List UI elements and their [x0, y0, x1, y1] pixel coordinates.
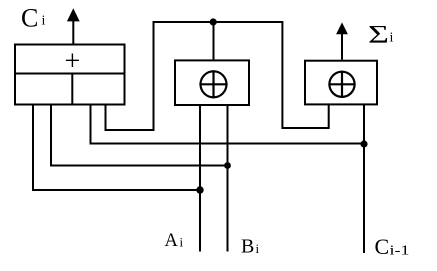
svg-text:i: i [42, 14, 46, 29]
svg-text:Σ: Σ [368, 22, 389, 49]
output arrow Ci wire [72, 19, 74, 44]
wire from carry block pin over top bus to right XOR input [106, 22, 329, 130]
carry block U1 lower vertical divider [71, 74, 73, 105]
right XOR gate U3 cross horizontal [328, 83, 355, 85]
carry block U1 horizontal divider [14, 73, 126, 75]
svg-text:A: A [165, 231, 179, 251]
middle XOR gate U2 cross vertical [212, 70, 214, 98]
right XOR gate U3 box [305, 61, 377, 105]
svg-text:B: B [241, 236, 254, 258]
carry block U1 outer box [15, 45, 125, 105]
output arrow Sigma wire [341, 33, 343, 60]
svg-text:i: i [256, 241, 260, 256]
junction dot on bus 3 at Ai [196, 186, 203, 193]
junction dot on top bus [210, 18, 217, 25]
svg-text:C: C [21, 4, 38, 33]
input wire Ai [199, 106, 201, 252]
svg-text:i-1: i-1 [390, 243, 410, 258]
output arrow Sigma head [336, 22, 348, 34]
svg-text:+: + [65, 46, 81, 77]
wire from carry block pin to bus 1 (carry-in bus) [91, 105, 364, 144]
junction dot on bus 1 at Ci-1 [360, 140, 367, 147]
right XOR gate U3 cross vertical [341, 71, 343, 98]
wire from top bus junction down to middle XOR [213, 22, 215, 59]
input wire Bi [227, 106, 229, 252]
wire from carry block pin to bus 2 (B input bus) [51, 105, 227, 166]
right XOR gate U3 circle symbol [329, 72, 354, 97]
wire from carry block pin to bus 3 (A input bus) [33, 105, 199, 191]
junction dot on bus 2 at Bi [224, 162, 231, 169]
svg-text:i: i [180, 235, 184, 250]
middle XOR gate U2 box [175, 60, 249, 105]
svg-text:i: i [390, 31, 394, 46]
svg-text:C: C [375, 234, 390, 259]
input wire Ci-1 [363, 105, 365, 253]
middle XOR gate U2 cross horizontal [199, 83, 227, 85]
middle XOR gate U2 circle symbol [201, 71, 227, 97]
output arrow Ci head [67, 8, 80, 21]
